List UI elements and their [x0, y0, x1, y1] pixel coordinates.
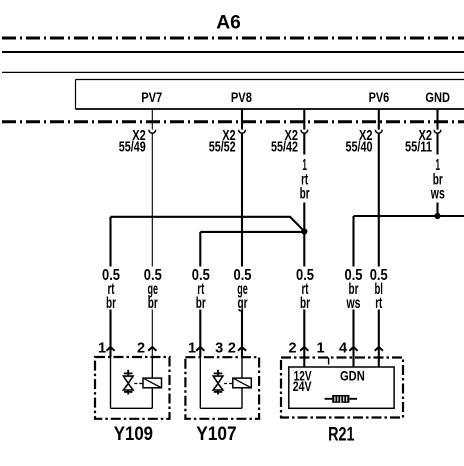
- svg-text:br: br: [148, 295, 158, 312]
- wire to R21 pin 4 (0.5 br ws): [352, 216, 354, 367]
- svg-text:GDN: GDN: [340, 368, 365, 383]
- pin label PV8: [231, 90, 252, 105]
- pin number 1 (Y109): [98, 341, 106, 357]
- wire 55/42 down to junction (1 rt br): [303, 133, 305, 231]
- svg-text:br: br: [300, 295, 310, 312]
- svg-text:55/42: 55/42: [271, 140, 298, 156]
- svg-text:ws: ws: [346, 295, 361, 312]
- pin arrow Y109 pin 1: [106, 347, 114, 351]
- Y109 internal wiring: [111, 357, 153, 408]
- wire junction to R21 pin 2 (0.5 rt br): [303, 232, 305, 368]
- wire X2 55/49 to Y109 pin 2 (0.5 ge br): [151, 133, 153, 357]
- valve Y109 dash-dot box: [95, 357, 170, 419]
- component label Y109: [114, 423, 153, 445]
- connector socket X2 55/52: [239, 130, 246, 133]
- svg-text:rt: rt: [375, 295, 382, 312]
- pin arrow Y109 pin 2: [148, 347, 156, 351]
- label X2 55/42: [271, 128, 298, 156]
- bus wire (thin horizontal): [2, 71, 464, 73]
- svg-text:2: 2: [228, 341, 236, 357]
- wire horizontal br ws to right sheet edge: [354, 215, 464, 217]
- svg-text:br: br: [300, 185, 310, 202]
- wire X2 55/11 down to junction (1 br ws): [436, 133, 438, 216]
- wire pin GND to connector X2 55/11: [436, 109, 438, 130]
- svg-text:R21: R21: [328, 423, 355, 445]
- svg-text:br: br: [106, 295, 116, 312]
- pin number 3 (Y107): [215, 341, 223, 357]
- wire pin PV7 to connector X2 55/49: [151, 109, 153, 130]
- svg-text:gr: gr: [238, 295, 248, 312]
- R21 inner box: [289, 367, 394, 408]
- resistor element R21: [325, 395, 357, 403]
- R21 voltage label 24V: [293, 379, 312, 394]
- connector socket X2 55/11: [434, 130, 441, 133]
- R21 label GDN: [340, 368, 365, 383]
- svg-text:2: 2: [288, 341, 296, 357]
- wire label 0.5 bl rt (R21): [370, 267, 388, 312]
- pin arrow R21 pin 2: [300, 347, 308, 351]
- wire pin PV6 to connector X2 55/40: [378, 109, 380, 130]
- pin arrow Y107 pin 1: [196, 347, 204, 351]
- valve Y107 dash-dot box: [185, 357, 259, 419]
- pin number 1 (Y107): [188, 341, 196, 357]
- pin arrow R21 right: [375, 347, 383, 351]
- dash-dot boundary line at connector row X2: [2, 120, 464, 123]
- wire label 0.5 ge br (Y109 pin 2): [144, 267, 162, 312]
- pin label PV6: [369, 90, 390, 105]
- wire pin PV8 to connector X2 55/52: [241, 109, 243, 130]
- bus wire (thick horizontal): [2, 51, 464, 53]
- wire label 1 rt br: [300, 157, 310, 203]
- label X2 55/52: [209, 128, 236, 156]
- pin arrow Y107 pin 2: [238, 347, 246, 351]
- wire to Y109 pin 1 vertical (0.5 rt br): [109, 217, 111, 357]
- solenoid coil Y107: [233, 378, 252, 388]
- wire branch to Y107 pin 1 (horizontal): [200, 231, 304, 233]
- pin number 2 (Y109): [137, 341, 145, 357]
- svg-text:br: br: [196, 295, 206, 312]
- svg-text:GND: GND: [425, 90, 450, 105]
- label X2 55/40: [346, 128, 373, 156]
- svg-text:PV7: PV7: [141, 90, 162, 105]
- Y107 internal wiring: [200, 357, 242, 408]
- connector socket X2 55/42: [301, 130, 308, 133]
- svg-text:55/49: 55/49: [119, 140, 146, 156]
- component label Y107: [196, 423, 236, 445]
- dash-dot boundary line of control unit A6 (top): [2, 37, 464, 40]
- svg-text:1: 1: [98, 341, 106, 357]
- junction node at 55/11 wire: [434, 213, 440, 219]
- svg-text:PV6: PV6: [369, 90, 390, 105]
- connector block on A6 with pins PV7 PV8 PV6 GND: [76, 80, 464, 110]
- component label R21: [328, 423, 355, 445]
- pin label GND: [425, 90, 450, 105]
- label X2 55/49: [119, 128, 146, 156]
- solenoid coil Y109: [143, 378, 162, 388]
- R21 pin 1 stub: [328, 358, 330, 365]
- wire pin to connector X2 55/42: [303, 109, 305, 130]
- wire X2 55/40 to R21 (0.5 bl rt): [378, 133, 380, 367]
- svg-text:PV8: PV8: [231, 90, 252, 105]
- wire label 0.5 rt br (Y109 pin 1): [102, 267, 120, 312]
- svg-text:A6: A6: [216, 11, 241, 33]
- wire label 0.5 ge gr (Y107 pin 2): [234, 267, 252, 312]
- svg-text:Y107: Y107: [196, 423, 236, 445]
- connector socket X2 55/40: [375, 130, 382, 133]
- pin number 4 (R21): [339, 341, 347, 357]
- R21 voltage label 12V: [294, 368, 312, 383]
- svg-text:ws: ws: [430, 185, 445, 202]
- svg-text:Y109: Y109: [114, 423, 153, 445]
- wire label 0.5 rt br (Y107 pin 1): [192, 267, 210, 312]
- pin number 1 (R21): [317, 341, 325, 357]
- wire to Y107 pin 1 vertical (0.5 rt br): [199, 232, 201, 357]
- svg-text:55/52: 55/52: [209, 140, 236, 156]
- svg-text:1: 1: [188, 341, 196, 357]
- svg-text:3: 3: [215, 341, 223, 357]
- wire branch to Y109 pin 1 (horizontal with diagonal into junction): [111, 217, 305, 232]
- solenoid valve symbol Y109: [123, 370, 142, 395]
- solenoid valve symbol Y107: [213, 370, 232, 395]
- svg-text:24V: 24V: [293, 379, 312, 394]
- wire X2 55/52 to Y107 pin 2 (0.5 ge gr): [241, 133, 243, 357]
- label X2 55/11: [405, 128, 432, 156]
- resistor unit R21 dash-dot box: [281, 358, 403, 418]
- svg-text:55/40: 55/40: [346, 140, 373, 156]
- wire label 0.5 br ws (R21 pin 4): [345, 267, 363, 312]
- svg-text:1: 1: [317, 341, 325, 357]
- svg-text:2: 2: [137, 341, 145, 357]
- pin number 2 (R21): [288, 341, 296, 357]
- control unit label A6: [216, 11, 241, 33]
- svg-text:4: 4: [339, 341, 347, 357]
- wire label 1 br ws: [430, 157, 445, 203]
- pin label PV7: [141, 90, 162, 105]
- junction node at 55/42 branch: [301, 228, 307, 234]
- wire label 0.5 rt br (R21 pin 2): [296, 267, 314, 312]
- svg-text:55/11: 55/11: [405, 140, 432, 156]
- connector socket X2 55/49: [149, 130, 156, 133]
- pin arrow R21 pin 4: [349, 347, 357, 351]
- pin number 2 (Y107): [228, 341, 236, 357]
